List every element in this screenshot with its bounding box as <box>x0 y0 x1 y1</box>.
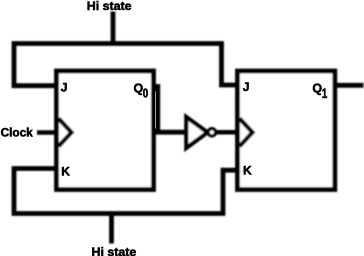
wire: clock input <box>37 130 57 135</box>
wire: Q0 output to inverter input <box>154 87 187 133</box>
svg-text:0: 0 <box>143 87 148 101</box>
svg-text:Hi state: Hi state <box>92 245 137 256</box>
flip-flop U1 box <box>57 71 154 190</box>
svg-text:K: K <box>61 164 70 178</box>
wire: bottom Hi-state bus to K inputs <box>14 169 239 214</box>
inverter U2 triangle <box>186 117 207 148</box>
wire: Q1 output <box>335 83 364 88</box>
clock chevron U1 (edge-trigger symbol) <box>59 119 72 147</box>
svg-text:Clock: Clock <box>1 125 34 139</box>
wire: inverter output to U3 clock input <box>216 130 239 135</box>
wire: top Hi-state bus to J inputs <box>14 44 239 86</box>
svg-text:Hi state: Hi state <box>87 0 132 13</box>
svg-text:J: J <box>243 80 250 94</box>
white gap between U1 right edge and Q0 drop wire <box>155 92 157 129</box>
svg-text:Q: Q <box>312 81 322 95</box>
svg-text:K: K <box>243 164 252 178</box>
svg-text:1: 1 <box>322 85 328 101</box>
wire: top Hi-state tick <box>111 12 116 46</box>
inverter U2 bubble <box>208 129 215 136</box>
clock chevron U3 (edge-trigger symbol) <box>240 119 253 147</box>
svg-text:J: J <box>61 81 68 95</box>
wire: bottom Hi-state tick <box>109 214 114 244</box>
flip-flop U3 box <box>238 71 335 190</box>
svg-text:Q: Q <box>134 81 144 95</box>
